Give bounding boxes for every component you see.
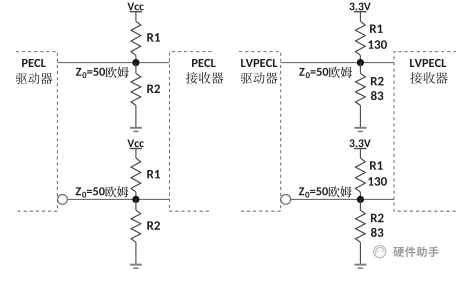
wire rail to R1 (135, 149, 137, 158)
label R2 (371, 214, 384, 223)
power rail label Vcc (127, 3, 143, 11)
wire junction to R2 (135, 199, 137, 210)
wire R1 to junction (359, 55, 361, 62)
label R2 (147, 84, 160, 93)
junction dot (132, 59, 139, 66)
resistor R1 zigzag (356, 21, 366, 55)
power rail bar (130, 11, 143, 13)
junction dot (357, 196, 364, 203)
power rail label 3.3V (349, 3, 370, 11)
wire R1 to junction (359, 192, 361, 199)
label Z0=50ohm (299, 186, 352, 197)
wire junction to R2 (359, 63, 361, 74)
power rail label Vcc (127, 139, 143, 147)
LVPECL receiver box (dashed) (394, 52, 456, 212)
junction dot (357, 59, 364, 66)
label CJK driver (qu dong qi) (16, 73, 53, 84)
label R2 (371, 77, 384, 86)
resistor R1 zigzag (131, 158, 141, 192)
wire R2 to ground (359, 242, 361, 264)
label CJK receiver (jie shou qi) (186, 72, 223, 84)
wire transmission line (281, 62, 394, 64)
label Z0=50ohm (299, 67, 352, 78)
wire rail to R1 (135, 12, 137, 21)
LVPECL driver box (dashed) (239, 52, 281, 212)
label Z0=50ohm (76, 67, 129, 78)
label LVPECL driver (241, 59, 277, 67)
PECL receiver box (dashed) (170, 52, 212, 212)
wire junction to R2 (359, 199, 361, 210)
wire transmission line (57, 62, 169, 64)
watermark logo (374, 246, 386, 258)
resistor R2 zigzag (131, 210, 141, 242)
label R2 (147, 221, 160, 230)
value 83 (371, 91, 383, 100)
value 130 (368, 177, 387, 186)
ground (354, 264, 366, 266)
inverted output bubble (281, 195, 291, 205)
PECL driver box (dashed) (16, 52, 58, 212)
label CJK receiver (jie shou qi) (410, 72, 447, 84)
resistor R2 zigzag (356, 210, 366, 242)
inverted output bubble (58, 195, 68, 205)
ground (130, 127, 142, 129)
label LVPECL receiver (410, 59, 446, 67)
wire R1 to junction (135, 55, 137, 62)
ground (130, 264, 142, 266)
wire junction to R2 (135, 63, 137, 74)
label Z0=50ohm (76, 186, 129, 197)
label PECL receiver (192, 59, 216, 67)
watermark text (ying jian zhu shou) (393, 246, 438, 257)
wire R2 to ground (135, 242, 137, 264)
ground (354, 127, 366, 129)
wire R1 to junction (135, 192, 137, 199)
resistor R1 zigzag (356, 158, 366, 192)
wire rail to R1 (359, 12, 361, 21)
label R1 (370, 161, 383, 169)
wire R2 to ground (359, 105, 361, 127)
label R1 (147, 33, 160, 41)
resistor R2 zigzag (356, 73, 366, 105)
label R1 (147, 170, 160, 178)
wire R2 to ground (135, 105, 137, 127)
value 130 (368, 40, 387, 49)
label R1 (370, 24, 383, 32)
wire rail to R1 (359, 149, 361, 158)
power rail bar (354, 11, 367, 13)
label PECL driver (22, 59, 46, 67)
resistor R2 zigzag (131, 73, 141, 105)
value 83 (371, 228, 383, 237)
junction dot (132, 196, 139, 203)
resistor R1 zigzag (131, 21, 141, 55)
label CJK driver (qu dong qi) (241, 72, 278, 83)
power rail bar (354, 148, 367, 150)
power rail label 3.3V (349, 139, 370, 147)
power rail bar (130, 148, 143, 150)
